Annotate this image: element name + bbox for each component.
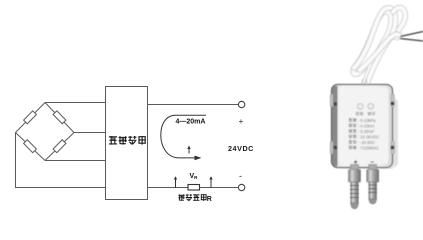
svg-text:R: R bbox=[207, 196, 212, 203]
strain gauge resistor R3 (bottom-left arm) bbox=[24, 140, 37, 153]
strain gauge resistor R2 (top-right arm) bbox=[53, 111, 66, 124]
cable entry into body bbox=[363, 79, 367, 86]
svg-text:: -20-85C: : -20-85C bbox=[358, 140, 375, 145]
svg-text:+: + bbox=[239, 117, 244, 126]
load resistor R bbox=[188, 185, 200, 191]
wire load resistor to - terminal bbox=[200, 187, 239, 189]
right pressure port bbox=[367, 165, 379, 205]
screw bottom-right bbox=[391, 146, 395, 150]
wire converter to + terminal bbox=[148, 104, 239, 106]
mounting tab top-right bbox=[391, 94, 394, 107]
svg-text:-: - bbox=[239, 171, 242, 181]
svg-text:4—20mA: 4—20mA bbox=[176, 119, 206, 126]
terminal + (circle) bbox=[238, 101, 244, 107]
probe tick right of VR bbox=[209, 176, 212, 187]
bridge bottom-left arm wire bbox=[16, 133, 46, 161]
svg-text:: 0-10kPa: : 0-10kPa bbox=[358, 118, 376, 123]
body left dark band bbox=[332, 86, 338, 166]
wire bridge left node down bbox=[16, 133, 107, 188]
bridge top-right arm wire bbox=[45, 103, 74, 133]
svg-text:: 4-20mA: : 4-20mA bbox=[358, 123, 375, 128]
zero adjust pot bbox=[357, 104, 363, 110]
wire bridge right node to converter bbox=[74, 132, 106, 134]
current direction arrow (up) bbox=[187, 146, 190, 154]
cable (white coiled) bbox=[353, 8, 405, 86]
converter box U1 转换线路 bbox=[106, 87, 148, 200]
arrowhead of loop bbox=[195, 156, 202, 161]
label 调零 范围 bbox=[356, 112, 376, 116]
terminal - (circle) bbox=[238, 184, 244, 190]
transmitter body bbox=[332, 85, 393, 168]
wire converter to load resistor bbox=[148, 187, 189, 189]
svg-text:: T1206841: : T1206841 bbox=[358, 145, 379, 150]
left pressure port bbox=[349, 165, 361, 209]
cable lead wires (dark) bbox=[400, 32, 423, 42]
bridge top-left arm wire bbox=[16, 103, 46, 133]
bridge bottom-right arm wire bbox=[45, 133, 74, 161]
current loop arrow 4-20mA bbox=[161, 115, 206, 158]
span adjust pot bbox=[368, 104, 374, 110]
strain gauge resistor R4 (bottom-right arm) bbox=[53, 140, 66, 153]
wire bridge top node to converter bbox=[45, 102, 106, 104]
label 负载电阻R bbox=[178, 194, 206, 201]
mounting tab bottom-left bbox=[330, 141, 333, 154]
mounting tab top-left bbox=[330, 94, 333, 107]
port polarity - bbox=[371, 161, 374, 163]
screw top-right bbox=[391, 102, 395, 106]
port polarity + bbox=[354, 160, 358, 164]
wire bridge bottom node to converter bbox=[45, 160, 106, 162]
mounting tab bottom-right bbox=[391, 141, 394, 154]
face plate bbox=[339, 87, 389, 164]
screw top-left bbox=[334, 102, 338, 106]
svg-text:24VDC: 24VDC bbox=[228, 144, 254, 153]
spec label text bbox=[349, 118, 380, 151]
screw bottom-left bbox=[334, 146, 338, 150]
probe tick left of VR bbox=[174, 176, 177, 187]
svg-text:: 0.25%F: : 0.25%F bbox=[358, 129, 375, 134]
strain gauge resistor R1 (top-left arm) bbox=[24, 111, 37, 124]
transmitter body shadow bbox=[388, 99, 398, 167]
svg-text:: 15-36VDC: : 15-36VDC bbox=[358, 134, 379, 139]
svg-text:VR: VR bbox=[190, 173, 199, 180]
